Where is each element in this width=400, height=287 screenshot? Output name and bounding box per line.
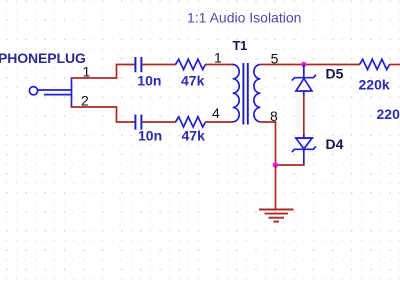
wire step down to bottom row [116,106,118,122]
diode D4 label [326,136,344,152]
title "1:1 Audio Isolation" [187,10,301,26]
pin number 2 [81,93,89,109]
wire R2 to T1 pin4 [205,121,233,123]
pin number 1 [83,64,91,80]
wire T1 pin8 horizontal [260,121,276,123]
svg-text:1: 1 [83,64,91,80]
value label 10n (top) [137,73,161,89]
wire T1 pin5 to 220k resistor [260,64,360,66]
wire pin8 down to junction [275,122,277,165]
resistor R2 47k [176,117,206,127]
pin number 5 [271,51,279,67]
wire plug pin1 horizontal [71,77,118,79]
transformer T1 secondary winding [254,65,261,122]
ground symbol [259,210,294,222]
wire to C1 [116,64,135,66]
capacitor C2 [135,115,141,130]
svg-text:4: 4 [212,105,220,121]
pin number 1 (T1 primary top) [214,50,222,66]
transformer T1 core [243,63,247,125]
value label 220 (clipped at edge) [377,106,400,122]
svg-text:D5: D5 [326,66,344,82]
svg-text:1:1 Audio Isolation: 1:1 Audio Isolation [187,10,301,26]
junction node at D5 top [301,62,306,67]
wire C2 to R2 [142,121,176,123]
connector J1 PHONEPLUG label [0,50,86,66]
svg-text:47k: 47k [182,128,206,144]
wire plug pin2 horizontal [71,106,118,108]
wire step up to top row [116,65,118,79]
wire to C2 [116,121,135,123]
resistor R1 47k [176,59,206,69]
value label 220k [359,77,390,93]
wire junction to ground [275,165,277,210]
svg-text:10n: 10n [138,128,162,144]
wire R1 to T1 pin1 [205,64,233,66]
resistor R3 220k [360,59,390,69]
svg-text:1: 1 [214,50,222,66]
junction node at ground branch [273,162,279,168]
svg-text:47k: 47k [181,73,205,89]
zener diode D5 [292,65,316,96]
value label 47k (bottom) [182,128,206,144]
capacitor C1 [135,57,141,72]
connector J1 phone plug symbol [29,78,71,108]
transformer T1 primary winding [233,65,240,122]
svg-text:PHONEPLUG: PHONEPLUG [0,50,86,66]
svg-text:10n: 10n [137,73,161,89]
svg-text:220: 220 [377,106,400,122]
svg-text:220k: 220k [359,77,390,93]
wire D5 anode to D4 top [303,95,305,138]
pin number 4 [212,105,220,121]
value label 47k (top) [181,73,205,89]
zener diode D4 [292,134,316,166]
transformer T1 label [233,38,247,53]
wire C1 to R1 [142,64,176,66]
diode D5 label [326,66,344,82]
svg-text:D4: D4 [326,136,344,152]
svg-text:T1: T1 [233,38,247,53]
pin number 8 [270,108,278,124]
wire D4 to ground junction [275,164,305,166]
wire R3 to right edge [389,64,400,66]
value label 10n (bottom) [138,128,162,144]
